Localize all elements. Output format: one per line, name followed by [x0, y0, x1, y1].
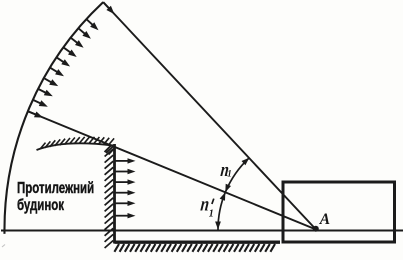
- ground line with hatching: [115, 240, 281, 243]
- label n1 prime: [200, 193, 214, 220]
- sight ray over wall top: [28, 111, 316, 229]
- point A: [313, 226, 319, 232]
- angle arc n1prime: [218, 192, 225, 229]
- angle arc n1: [225, 158, 249, 193]
- arrows from wall: [116, 158, 136, 218]
- svg-text:1: 1: [227, 169, 232, 179]
- baseline ground line: [1, 230, 403, 232]
- radiation arrows on arc: [28, 2, 115, 118]
- angle arc arrowheads: [215, 158, 249, 230]
- label n1: [220, 159, 232, 180]
- roof hatching: [40, 137, 114, 149]
- wall hatching: [105, 149, 114, 248]
- building roof curve: [37, 143, 114, 150]
- roof-wall corner hatch blob: [105, 146, 116, 155]
- faint mark lower left: [2, 245, 5, 248]
- sight ray to arc apex: [103, 2, 316, 229]
- observer building rectangle: [283, 182, 395, 242]
- svg-text:1: 1: [209, 209, 214, 220]
- opposite building wall: [113, 144, 116, 244]
- svg-text:A: A: [319, 211, 330, 228]
- sky arc: [4, 2, 103, 234]
- label: opposite building text: [17, 180, 94, 215]
